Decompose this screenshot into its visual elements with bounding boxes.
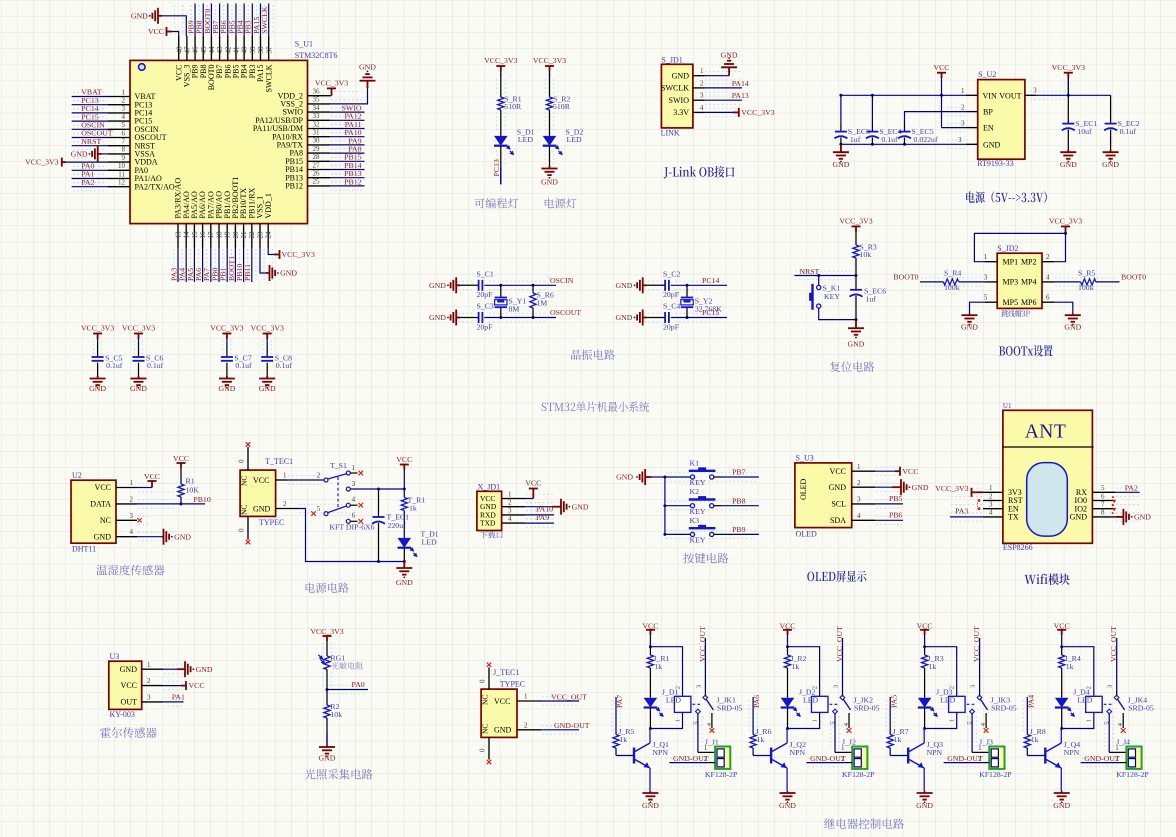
svg-text:GND: GND (642, 801, 659, 810)
pin 47 VSS_3 (186, 36, 188, 60)
svg-text:13: 13 (174, 231, 182, 239)
ground below pin6 (1065, 314, 1081, 322)
power flag VCC_3V3 above S_R1 (496, 66, 505, 71)
svg-text:BP: BP (983, 108, 993, 117)
wire RG1 to PA0 node (326, 670, 328, 690)
transistor J_Q3 NPN (907, 748, 909, 764)
svg-text:9: 9 (122, 154, 126, 162)
svg-text:VCC: VCC (396, 455, 412, 464)
svg-text:3: 3 (833, 685, 840, 688)
pin 27 PB14 (308, 169, 331, 171)
svg-text:VCC_3V3: VCC_3V3 (935, 484, 968, 493)
wire net GND-OUT (541, 729, 579, 731)
svg-text:J_TEC1: J_TEC1 (493, 668, 519, 677)
svg-text:VCC: VCC (642, 621, 658, 630)
wire VCC to junction 2 (787, 635, 789, 647)
caption 晶振电路 (571, 349, 615, 359)
svg-text:PA14: PA14 (732, 79, 749, 88)
caption 温湿度传感器 (96, 565, 164, 576)
svg-text:TYPEC: TYPEC (259, 518, 284, 527)
power flag VCC_3V3 right (1064, 73, 1073, 78)
svg-text:2: 2 (317, 472, 321, 480)
wire net NRST (794, 275, 856, 277)
pin 33 PA12/USB/DP (308, 119, 331, 121)
photoresistor RG1 (324, 656, 330, 670)
svg-text:PB11: PB11 (243, 264, 252, 281)
svg-text:3: 3 (970, 685, 977, 688)
pin 1 VCC of S_U3 (852, 470, 875, 472)
pin 2 GND stub (517, 729, 541, 731)
wire net PB3 top (251, 4, 253, 37)
IC U3 KY-003 body (109, 661, 142, 709)
svg-text:GND: GND (572, 502, 589, 511)
ground below pin5 (962, 314, 978, 322)
wire to RG1 (326, 641, 328, 656)
ground above J-Link pin1 (721, 61, 737, 76)
svg-text:0: 0 (479, 679, 487, 683)
svg-text:GND: GND (1060, 160, 1077, 169)
wire LED to collector 2 (787, 708, 789, 728)
svg-text:3: 3 (695, 685, 702, 688)
wire pin1 to VCC flag (525, 498, 533, 500)
capacitor S_EC4 0.1uf (871, 95, 873, 124)
crystal S_Y2 32.768K (686, 285, 688, 297)
svg-text:NPN: NPN (652, 748, 668, 757)
svg-text:VCC_3V3: VCC_3V3 (741, 108, 774, 117)
ground left of S_C4 (634, 317, 636, 319)
svg-text:OLED: OLED (799, 478, 808, 500)
pin stubs S_JD2 (985, 261, 997, 263)
svg-text:36: 36 (313, 88, 321, 96)
svg-text:GND: GND (832, 160, 849, 169)
wire net PA9 (330, 144, 365, 146)
resistor T_R1 1k (403, 489, 405, 498)
wire net PA13 (705, 99, 743, 101)
capacitor S_EC2 0.1uf (1110, 95, 1112, 123)
svg-text:TYPEC: TYPEC (500, 680, 525, 689)
svg-text:LED: LED (666, 696, 682, 705)
svg-text:U3: U3 (110, 652, 120, 661)
svg-text:PA3: PA3 (955, 507, 968, 516)
wire pin4 to ground (137, 536, 162, 538)
svg-text:J_J1: J_J1 (705, 738, 719, 747)
svg-text:GND: GND (259, 384, 276, 393)
wire pin5 to terminal 4 (1108, 714, 1110, 753)
svg-text:6: 6 (1046, 294, 1050, 302)
wire net PB5 top (235, 4, 237, 37)
svg-text:1: 1 (812, 719, 819, 722)
svg-text:SRD-05: SRD-05 (854, 704, 880, 713)
svg-text:T_TEC1: T_TEC1 (265, 457, 293, 466)
svg-text:VOUT: VOUT (999, 91, 1021, 100)
wire net PA4 bottom (185, 248, 187, 282)
svg-text:5: 5 (122, 121, 126, 129)
svg-text:10k: 10k (330, 710, 342, 719)
wire S_R1 to S_D1 (500, 110, 502, 136)
wire net PA11 (330, 128, 365, 130)
svg-text:20pF: 20pF (477, 323, 494, 332)
wire net PA3 bottom (177, 248, 179, 282)
LED S_D1 (494, 136, 508, 146)
svg-text:0: 0 (238, 528, 246, 532)
svg-text:32: 32 (313, 120, 321, 128)
svg-text:0.1uf: 0.1uf (276, 361, 293, 370)
svg-text:S_JD2: S_JD2 (997, 244, 1018, 253)
connector J_TEC1 TYPEC body (481, 689, 517, 737)
svg-text:T_S1: T_S1 (330, 461, 347, 470)
resistor R2 10k (326, 690, 328, 706)
wire net PA14 (705, 87, 743, 89)
wire S_K1 to ground rail (819, 308, 856, 319)
svg-text:26: 26 (313, 170, 321, 178)
capacitor S_EC1 10uf (1067, 95, 1069, 123)
svg-text:VCC: VCC (95, 483, 111, 492)
svg-text:S_U2: S_U2 (978, 70, 996, 79)
svg-text:2: 2 (978, 755, 982, 763)
svg-text:24: 24 (265, 231, 273, 239)
svg-text:4: 4 (1046, 273, 1050, 281)
svg-text:2: 2 (1046, 253, 1050, 261)
pin 25 PB12 (308, 185, 331, 187)
wire net PA7 bottom (210, 248, 212, 282)
shield pin 0 bottom (247, 516, 249, 539)
svg-text:45: 45 (200, 46, 208, 54)
svg-text:8M: 8M (509, 305, 520, 314)
svg-text:S_R5: S_R5 (1078, 269, 1095, 278)
pin 6 OSCOUT (108, 137, 130, 139)
svg-text:15: 15 (191, 231, 199, 239)
pin 7 IO2 of U1 (1092, 508, 1115, 510)
svg-text:1: 1 (508, 490, 512, 498)
ground at VSSA pin8 (102, 153, 108, 155)
svg-text:7: 7 (1101, 501, 1105, 509)
svg-text:NRST: NRST (81, 137, 101, 146)
svg-text:4: 4 (130, 528, 134, 536)
pin 30 PA9/TX (308, 144, 331, 146)
svg-text:3: 3 (147, 694, 151, 702)
wire net VBAT (72, 96, 108, 98)
svg-text:PA1: PA1 (172, 693, 185, 702)
resistor S_R1 510R (498, 97, 504, 110)
wire net PB15 (330, 160, 365, 162)
LED J_D1 (644, 698, 658, 708)
svg-text:GND: GND (961, 322, 978, 331)
svg-text:220uf: 220uf (388, 521, 407, 530)
svg-text:S_C4: S_C4 (663, 302, 680, 311)
pin 31 PA10/RX (308, 136, 331, 138)
pin 5 VOUT stub (1025, 94, 1036, 96)
svg-text:OSCOUT: OSCOUT (550, 308, 581, 317)
junction dots on VIN rail (871, 94, 874, 97)
wire S_D2 to ground (549, 146, 551, 168)
caption 复位电路 (830, 361, 874, 371)
svg-text:38: 38 (257, 46, 265, 54)
svg-text:R1: R1 (186, 477, 195, 486)
svg-text:PC14: PC14 (702, 276, 719, 285)
svg-text:EN: EN (983, 124, 994, 133)
svg-text:1M: 1M (537, 299, 548, 308)
svg-text:K1: K1 (690, 458, 700, 467)
svg-text:48: 48 (175, 46, 183, 54)
wire net PC13 below S_D1 (500, 146, 502, 184)
svg-text:6: 6 (1101, 492, 1105, 500)
svg-text:GND: GND (94, 532, 112, 541)
relay pin4 no connect 3 (985, 713, 987, 728)
power flag VCC_3V3 bootx (1061, 226, 1070, 233)
svg-text:OUT: OUT (121, 698, 138, 707)
pin 1 VCC stub (276, 479, 287, 481)
svg-text:VCC_3V3: VCC_3V3 (1049, 217, 1082, 226)
svg-text:1k: 1k (792, 662, 800, 671)
svg-text:VCC: VCC (830, 467, 846, 476)
relay pin4 no connect 4 (1122, 713, 1124, 728)
svg-text:2: 2 (961, 103, 965, 111)
svg-text:23: 23 (256, 231, 264, 239)
svg-text:0.1uf: 0.1uf (106, 361, 123, 370)
svg-text:J_J2: J_J2 (842, 738, 856, 747)
pin 9 VDDA (108, 161, 130, 163)
pin 32 PA11/USB/DM (308, 128, 331, 130)
pin 13 PA3/RX/AO (177, 224, 179, 248)
pin 17 PA7/AO (210, 224, 212, 248)
svg-text:1k: 1k (409, 504, 417, 513)
pin 2 BP stub (966, 111, 978, 113)
svg-text:GND: GND (916, 801, 933, 810)
svg-text:1k: 1k (929, 662, 937, 671)
svg-text:3: 3 (700, 92, 704, 100)
svg-text:3: 3 (130, 512, 134, 520)
svg-text:VCC_3V3: VCC_3V3 (251, 324, 284, 333)
caption 霍尔传感器 (100, 727, 157, 738)
svg-text:KEY: KEY (690, 536, 706, 545)
relay pin4 no connect 2 (848, 713, 850, 728)
pin 48 VCC (178, 36, 180, 60)
svg-text:8: 8 (122, 146, 126, 154)
svg-text:GND: GND (1102, 160, 1119, 169)
svg-text:PC13: PC13 (492, 159, 501, 176)
svg-text:LINK: LINK (661, 129, 680, 138)
wire net PB1 bottom (226, 248, 228, 282)
connector T_TEC1 TYPEC body (240, 470, 276, 516)
svg-text:12: 12 (118, 179, 126, 187)
ground relay 4 (1054, 791, 1070, 800)
wire pin2 to VCC flag (163, 685, 181, 687)
pin 16 PA6/AO (202, 224, 204, 248)
svg-text:X_JD1: X_JD1 (478, 482, 501, 491)
svg-text:S_R4: S_R4 (944, 269, 961, 278)
power flag VCC relay 2 (783, 630, 792, 635)
wire net PA6 bottom (202, 248, 204, 282)
wire VCC vertical to EN (941, 78, 943, 128)
svg-text:GND: GND (615, 313, 632, 322)
svg-text:GND: GND (359, 63, 376, 72)
svg-text:SRD-05: SRD-05 (1128, 704, 1154, 713)
wire net PA0 (327, 689, 368, 691)
wire pin2 to VCC_3V3 (1054, 233, 1066, 261)
svg-text:20pF: 20pF (663, 323, 680, 332)
ground left of S_C1 (447, 284, 449, 286)
svg-text:20pF: 20pF (477, 290, 494, 299)
svg-text:ESP8266: ESP8266 (1003, 543, 1033, 552)
pin 4 GND of U2 (116, 536, 137, 538)
svg-text:6: 6 (122, 129, 126, 137)
wire net PA2 (1116, 491, 1140, 493)
svg-text:10: 10 (118, 162, 126, 170)
wire net GND-OUT relay 1 (669, 762, 708, 764)
svg-text:GND: GND (218, 384, 235, 393)
pin 1 VIN stub (966, 94, 978, 96)
svg-text:GND: GND (130, 384, 147, 393)
pin 23 VSS_1 (259, 224, 261, 248)
connector S_JD2 jumper body (997, 253, 1042, 308)
svg-text:1: 1 (961, 87, 965, 95)
svg-text:DATA: DATA (90, 500, 111, 509)
svg-text:GND: GND (983, 140, 1001, 149)
svg-text:39: 39 (249, 46, 257, 53)
pin 5 RX of U1 (1092, 491, 1115, 493)
LED J_D4 (1055, 698, 1069, 708)
svg-text:18: 18 (215, 231, 223, 239)
svg-text:2: 2 (508, 499, 512, 507)
svg-text:GND: GND (396, 578, 413, 587)
svg-text:PA13: PA13 (732, 91, 749, 100)
svg-text:VCC: VCC (779, 621, 795, 630)
svg-text:3: 3 (1107, 685, 1114, 688)
power flag VCC_3V3 light (323, 636, 332, 641)
svg-text:VCC: VCC (173, 454, 189, 463)
push button K2 KEY (665, 505, 690, 507)
svg-text:30: 30 (313, 137, 321, 145)
svg-text:S_U3: S_U3 (796, 454, 814, 463)
svg-text:VCC_3V3: VCC_3V3 (1052, 63, 1085, 72)
svg-text:25: 25 (313, 178, 321, 186)
wire BP to S_EC5 (905, 112, 967, 124)
svg-text:2: 2 (857, 479, 861, 487)
wire pin2 gnd loop (298, 509, 404, 562)
wire net PB9 top (194, 4, 196, 37)
svg-text:0.1uf: 0.1uf (1120, 127, 1137, 136)
svg-text:KY-003: KY-003 (110, 710, 135, 719)
svg-text:1k: 1k (619, 735, 627, 744)
svg-text:1k: 1k (757, 735, 765, 744)
wire net PB6 top (227, 4, 229, 37)
pin 3 OUT of U3 (142, 701, 163, 703)
IC U2 DHT11 body (71, 480, 116, 543)
power flag VCC_3V3 at VDD_1 pin24 (268, 248, 274, 255)
pin 14 PA4/AO (185, 224, 187, 248)
resistor S_R6 1M (532, 285, 534, 293)
pin 4 TX of U1 (983, 516, 1003, 518)
wire S_R2 top (549, 77, 551, 97)
svg-text:0: 0 (479, 748, 487, 752)
caption 按键电路 (683, 553, 728, 564)
wire T_D1 to gnd rail (403, 548, 405, 561)
svg-text:SWCLK: SWCLK (260, 6, 269, 34)
wire net PA1 (163, 701, 184, 703)
pin 4 TXD of X_JD1 (502, 522, 525, 524)
svg-text:TX: TX (1008, 513, 1019, 522)
svg-text:S_C1: S_C1 (477, 270, 494, 279)
wire net PA15 top (260, 4, 262, 37)
capacitor S_C6 0.1uf (138, 339, 140, 345)
relay pin4 no connect 1 (711, 713, 713, 728)
svg-text:2: 2 (841, 755, 845, 763)
svg-text:2: 2 (700, 79, 704, 87)
svg-text:STM32C8T6: STM32C8T6 (295, 51, 338, 60)
svg-text:LED: LED (940, 696, 956, 705)
caption 可编程灯 (474, 198, 518, 208)
svg-text:33: 33 (313, 112, 321, 120)
svg-text:27: 27 (313, 161, 321, 169)
svg-text:GND: GND (1070, 513, 1088, 522)
svg-text:GND: GND (615, 281, 632, 290)
pin 29 PA8 (308, 152, 331, 154)
svg-text:VCC_3V3: VCC_3V3 (310, 627, 343, 636)
svg-text:1k: 1k (894, 735, 902, 744)
pin 45 PB8 (202, 36, 204, 60)
svg-text:21: 21 (240, 231, 248, 239)
svg-text:NC: NC (240, 505, 249, 515)
wire pin5 to terminal 3 (971, 714, 973, 753)
svg-text:37: 37 (265, 46, 273, 54)
svg-text:2: 2 (283, 500, 287, 508)
svg-text:LED: LED (422, 537, 438, 546)
svg-text:1: 1 (283, 472, 287, 480)
wire net PA1 (72, 178, 108, 180)
capacitor S_EC3 1uf (840, 95, 842, 124)
svg-text:KFT DIP-6X6: KFT DIP-6X6 (329, 522, 374, 531)
svg-text:10uf: 10uf (1077, 127, 1092, 136)
pin 1 VCC of X_JD1 (502, 498, 525, 500)
svg-text:KEY: KEY (690, 478, 706, 487)
pin 4 SDA of S_U3 (852, 519, 875, 521)
wire pin4 to VCC_3V3 flag (705, 111, 734, 113)
wire LED to collector 4 (1061, 708, 1063, 728)
svg-text:11: 11 (118, 170, 125, 178)
pin 42 PB6 (227, 36, 229, 60)
wire net BOOT0 left (920, 281, 943, 283)
svg-text:J_J3: J_J3 (979, 738, 993, 747)
wire pin1 loop to VCC_3V3 (974, 233, 1065, 261)
antenna pad (1027, 463, 1068, 536)
wire key rail (652, 476, 665, 478)
LED S_D2 (543, 136, 557, 146)
pin 10 PA0 (108, 169, 130, 171)
svg-text:16: 16 (199, 231, 207, 239)
ground relay 2 (780, 791, 796, 800)
wire pin6 to ground (1054, 302, 1073, 313)
svg-text:10k: 10k (860, 250, 872, 259)
pin 2 SWCLK of S_JD1 (693, 87, 705, 89)
wire pin8 to ground (1116, 509, 1129, 525)
pin 2 GND stub (966, 143, 978, 145)
svg-text:J_J4: J_J4 (1116, 738, 1130, 747)
shield pin 0 top (488, 668, 490, 690)
svg-text:MP2: MP2 (1021, 257, 1037, 266)
LED J_D2 (781, 698, 795, 708)
svg-text:510R: 510R (553, 102, 571, 111)
pin 24 VDD_1 (267, 224, 269, 248)
ground for keys (636, 476, 638, 478)
ground below S_D2 (542, 166, 558, 175)
pin 1 GND of S_JD1 (693, 75, 705, 77)
svg-text:PA9: PA9 (536, 513, 549, 522)
svg-text:46: 46 (192, 46, 200, 54)
power flag VCC_3V3 at VDD_2 pin36 (330, 95, 332, 97)
wire net PA0 (72, 169, 108, 171)
wire net PA10 (525, 514, 554, 516)
svg-text:GND: GND (196, 665, 213, 674)
